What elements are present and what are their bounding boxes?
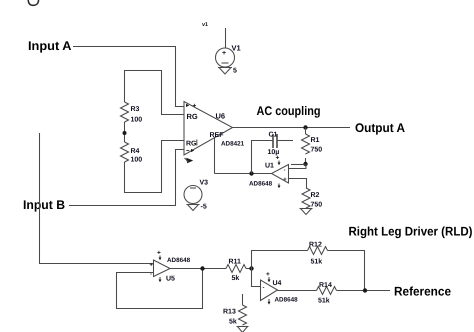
- wire: C1 branch: [252, 141, 273, 174]
- svg-text:Input A: Input A: [28, 39, 72, 53]
- svg-text:RG: RG: [187, 112, 198, 121]
- wire: U1 inverting input stub: [291, 164, 306, 166]
- svg-text:100: 100: [131, 157, 143, 164]
- wire: C1 right stub: [278, 140, 294, 142]
- svg-text:-: -: [284, 168, 286, 174]
- svg-text:51k: 51k: [318, 297, 330, 305]
- wire: R14 to Reference: [337, 290, 391, 292]
- op-amp U4 AD8648: [261, 271, 299, 305]
- svg-text:750: 750: [311, 147, 323, 154]
- op-amp U1 AD8648 (points left): [249, 155, 289, 189]
- svg-text:Output A: Output A: [355, 121, 405, 135]
- svg-text:V1: V1: [232, 44, 241, 53]
- svg-text:AD8648: AD8648: [275, 297, 299, 304]
- wire: gain loop bottom: [125, 141, 185, 193]
- svg-text:U5: U5: [166, 276, 175, 283]
- svg-text:R1: R1: [311, 137, 320, 144]
- svg-text:51k: 51k: [311, 258, 323, 266]
- capacitor C1 10u: [268, 132, 280, 157]
- wire: Input B lead: [69, 150, 185, 206]
- ground under R2: [300, 209, 313, 215]
- svg-text:100: 100: [131, 117, 143, 124]
- resistor R12 51k: [308, 242, 328, 266]
- svg-text:+: +: [276, 155, 280, 162]
- wire: U5 feedback loop: [117, 269, 203, 309]
- node: C1 branch junction: [249, 171, 253, 175]
- wire: R11 to U4 input: [252, 269, 261, 287]
- wire: R3-R4 link: [124, 122, 126, 142]
- wire: U6 output to Output A: [233, 127, 351, 129]
- wire: Input A lead: [73, 47, 185, 107]
- node: R11 right junction: [249, 266, 253, 270]
- svg-text:V3: V3: [200, 180, 209, 187]
- wire: REF pin down: [214, 137, 216, 174]
- svg-text:REF: REF: [210, 132, 225, 139]
- svg-text:R11: R11: [229, 259, 242, 266]
- wire: U1 inverting input jog: [289, 165, 306, 169]
- svg-text:750: 750: [311, 202, 323, 209]
- resistor R1 750: [302, 128, 323, 165]
- svg-text:R3: R3: [131, 106, 140, 113]
- svg-text:R13: R13: [223, 309, 236, 316]
- ground under R13: [237, 327, 249, 332]
- op-amp U6 AD8421: [184, 102, 245, 164]
- voltage source V1: [202, 22, 241, 75]
- svg-text:-5: -5: [201, 204, 207, 211]
- svg-text:AD8648: AD8648: [249, 181, 273, 188]
- node: Reference junction: [363, 288, 367, 292]
- node: output/R1 junction: [303, 125, 307, 129]
- node: U5 output junction: [200, 266, 204, 270]
- svg-text:Right Leg Driver (RLD): Right Leg Driver (RLD): [349, 225, 473, 239]
- wire: U4 output: [278, 290, 317, 292]
- svg-text:R12: R12: [309, 242, 322, 249]
- svg-text:AC coupling: AC coupling: [257, 104, 321, 118]
- svg-text:Reference: Reference: [394, 285, 451, 299]
- svg-text:R4: R4: [131, 148, 140, 155]
- svg-text:+: +: [157, 250, 161, 257]
- node: R1 bottom junction: [303, 162, 307, 166]
- svg-text:AD8648: AD8648: [167, 257, 191, 264]
- resistor R3: [121, 102, 129, 122]
- svg-text:+: +: [222, 50, 226, 57]
- wire: gain loop top: [125, 71, 185, 115]
- svg-text:U4: U4: [273, 280, 282, 287]
- resistor R2 750: [302, 188, 322, 209]
- wire: long left vertical to RLD buffer: [40, 133, 154, 264]
- wire: U5 output: [170, 268, 226, 270]
- svg-text:RG: RG: [186, 141, 197, 148]
- svg-text:v1: v1: [202, 22, 208, 28]
- wire: feedback to R12: [252, 251, 308, 269]
- svg-text:+: +: [266, 271, 270, 278]
- svg-text:5k: 5k: [229, 318, 237, 326]
- wire: R12 to Reference node: [328, 251, 365, 291]
- svg-text:C1: C1: [269, 132, 278, 139]
- svg-text:AD8421: AD8421: [221, 141, 245, 148]
- svg-text:5k: 5k: [232, 274, 240, 282]
- svg-text:R14: R14: [319, 282, 332, 289]
- svg-text:Input B: Input B: [23, 198, 65, 212]
- wire: U1 output to REF: [215, 173, 272, 175]
- resistor R13 5k: [223, 294, 247, 326]
- svg-text:U6: U6: [216, 112, 226, 121]
- resistor R11 5k: [226, 259, 252, 283]
- svg-text:-: -: [263, 285, 265, 291]
- node: R3/R4 junction: [123, 131, 127, 135]
- op-amp U5 AD8648: [150, 250, 191, 283]
- resistor R4: [121, 142, 129, 162]
- svg-text:5: 5: [233, 68, 237, 75]
- svg-text:R2: R2: [311, 192, 320, 199]
- svg-text:+: +: [193, 103, 197, 110]
- voltage source V3: [184, 180, 208, 211]
- svg-text:U1: U1: [265, 163, 274, 170]
- resistor R14 51k: [317, 282, 337, 305]
- partial letter g (cropped caption glyph): [28, 0, 38, 5]
- wire: U1 non-inverting input to R2: [289, 179, 307, 189]
